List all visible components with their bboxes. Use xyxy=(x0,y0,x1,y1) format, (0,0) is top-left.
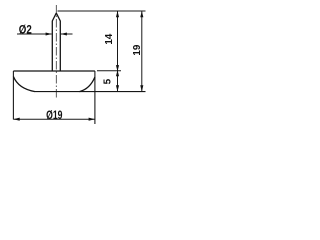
Ø2 leader line left xyxy=(17,33,52,35)
arrow 14 top (points up) xyxy=(116,11,119,17)
dimension line 19 xyxy=(141,11,143,92)
svg-text:14: 14 xyxy=(104,33,115,44)
arrow 19 bottom (points down) xyxy=(140,85,143,91)
flange-top extension line xyxy=(97,70,121,72)
arrow 19 top (points up) xyxy=(140,11,143,17)
arrow Ø2 left (points right at pin) xyxy=(46,32,52,35)
arrow Ø19 right (points right) xyxy=(89,118,95,121)
base right edge + Ø19 right extension line xyxy=(94,71,96,124)
Ø2 leader line right xyxy=(61,33,73,35)
arrow Ø19 left (points left) xyxy=(13,118,19,121)
base top edge xyxy=(13,70,95,72)
dimension line Ø19 xyxy=(13,118,95,120)
centerline xyxy=(55,5,57,99)
arrow 5 top (points up) xyxy=(116,70,119,76)
arrow 14 bottom (points down) xyxy=(116,65,119,71)
arrow Ø2 right (points left at pin) xyxy=(61,32,67,35)
base left edge + Ø19 left extension line xyxy=(12,71,14,120)
base bottom flat + bottom extension line xyxy=(35,91,146,93)
tip extension line xyxy=(58,10,146,12)
svg-text:19: 19 xyxy=(132,44,143,55)
base dome left arc xyxy=(13,77,35,92)
svg-text:5: 5 xyxy=(102,78,113,84)
svg-text:Ø2: Ø2 xyxy=(19,24,32,37)
base dome right arc xyxy=(80,77,95,92)
dimension line 14/5 xyxy=(117,11,119,92)
svg-text:Ø19: Ø19 xyxy=(46,108,62,122)
pin outline (spike) xyxy=(52,13,60,71)
arrow 5 bottom (points down) xyxy=(116,85,119,91)
